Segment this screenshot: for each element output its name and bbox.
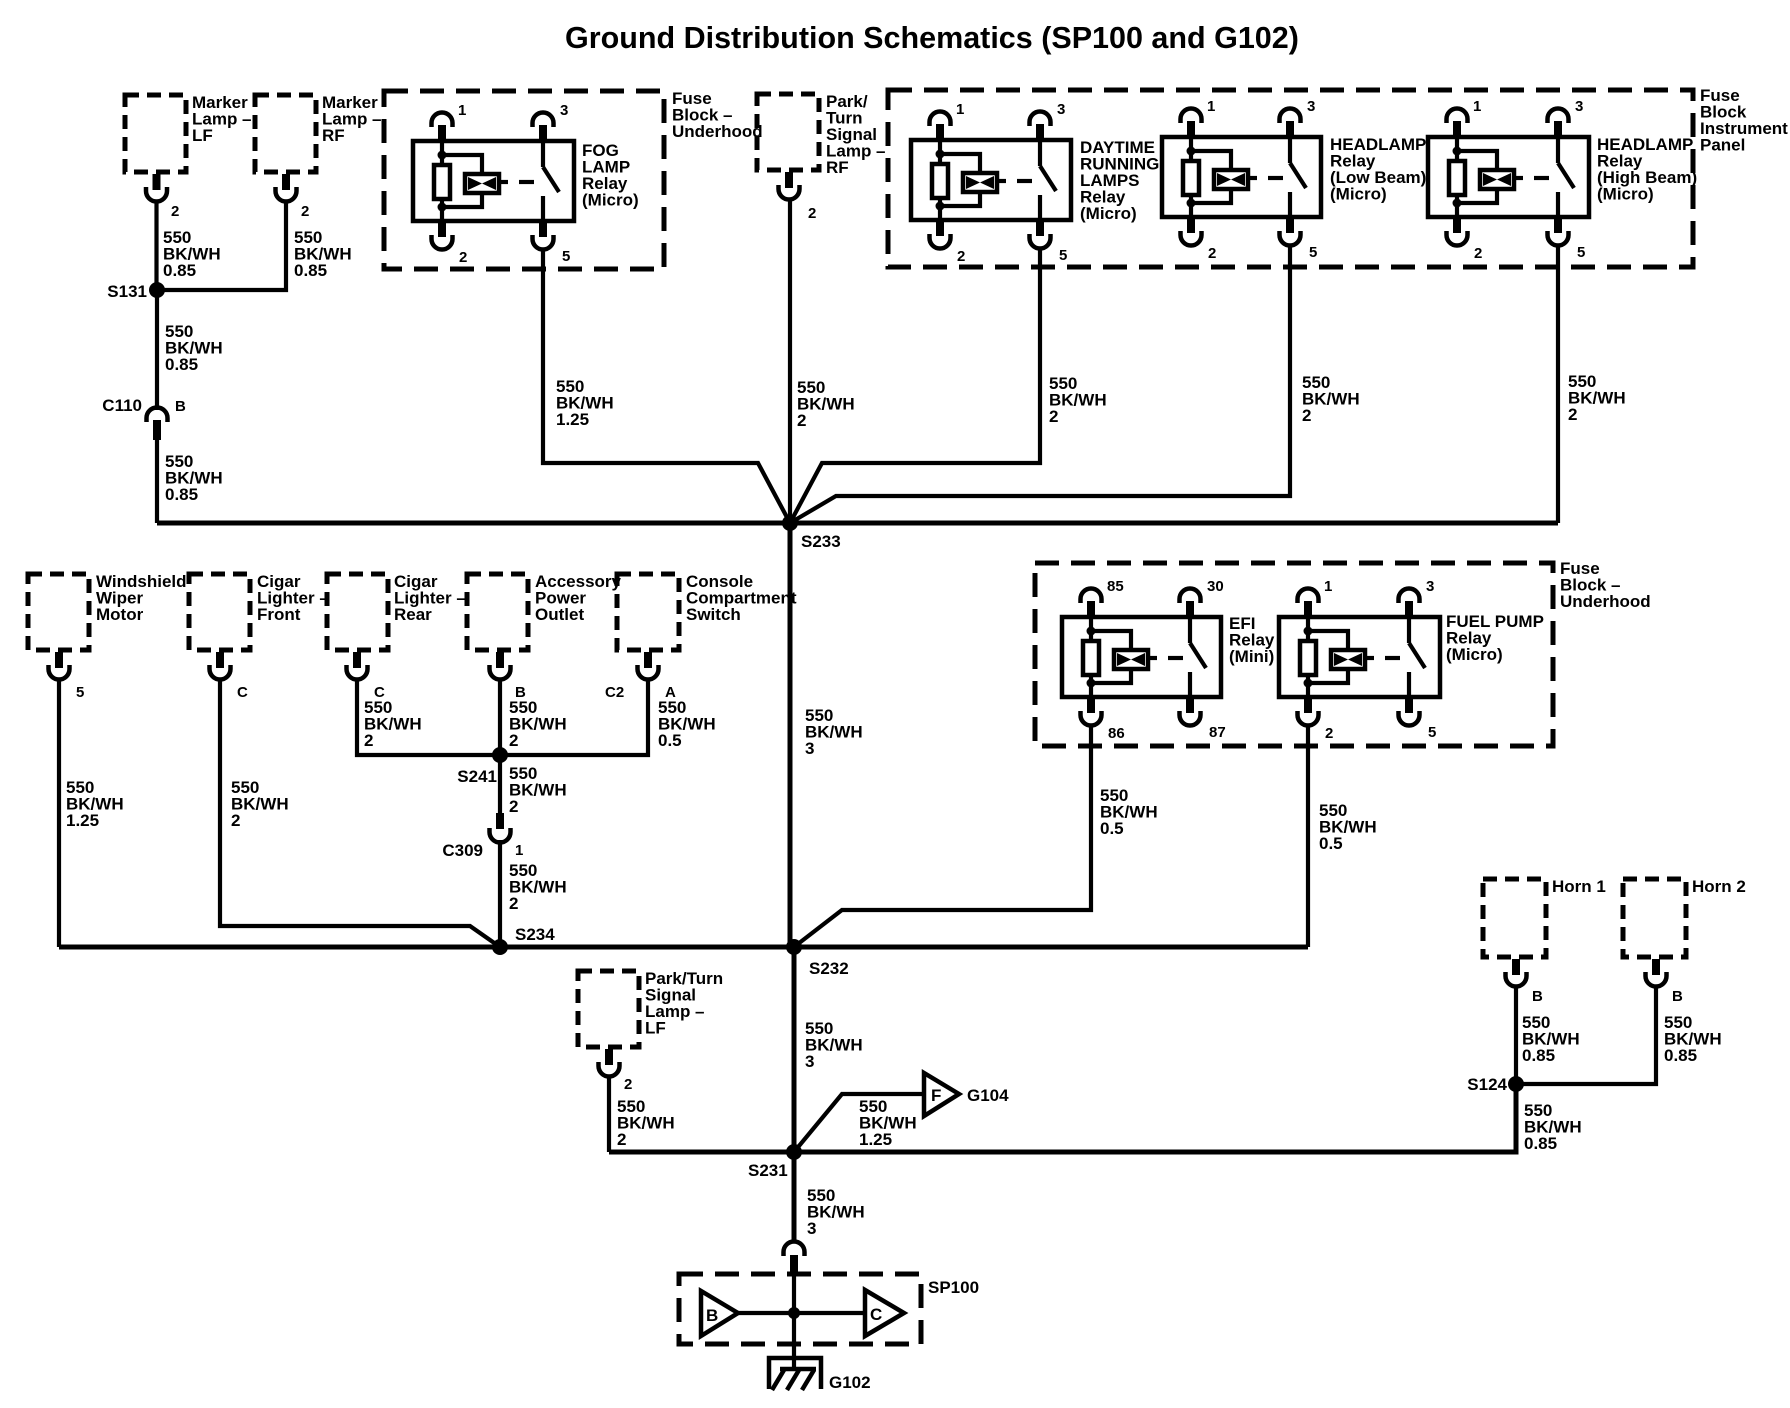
svg-text:RF: RF bbox=[322, 126, 345, 145]
svg-text:85: 85 bbox=[1107, 578, 1124, 595]
svg-text:C309: C309 bbox=[442, 841, 483, 860]
splice S233 bbox=[782, 515, 798, 531]
relay EFI: pin 30 connector bbox=[1180, 589, 1201, 604]
relay Fog Lamp: pin 2 connector bbox=[438, 221, 446, 237]
wire console switch to S241 bbox=[500, 679, 648, 755]
svg-text:Rear: Rear bbox=[394, 605, 432, 624]
svg-text:1: 1 bbox=[1473, 98, 1481, 115]
pin C (Cigar Lighter Front) bbox=[216, 652, 224, 668]
wire S231 to SP100 bbox=[792, 1152, 797, 1241]
svg-text:30: 30 bbox=[1207, 578, 1224, 595]
svg-text:RF: RF bbox=[826, 158, 849, 177]
relay Headlamp Low Beam: pin 5 connector bbox=[1286, 217, 1294, 233]
relay Fuel Pump: switch contact bbox=[1407, 617, 1411, 643]
svg-text:1: 1 bbox=[1324, 578, 1332, 595]
fuse block - underhood (EFI/fuel pump) dashed enclosure bbox=[1035, 563, 1553, 746]
relay Fuel Pump: pin 3 connector bbox=[1399, 589, 1420, 604]
svg-text:1: 1 bbox=[1207, 98, 1215, 115]
svg-text:Underhood: Underhood bbox=[1560, 592, 1651, 611]
component Cigar Lighter Front bbox=[189, 574, 250, 650]
relay Headlamp High Beam: resistor bbox=[1455, 137, 1459, 161]
ground G102 bbox=[769, 1358, 821, 1389]
relay EFI: pin 86 connector bbox=[1087, 697, 1095, 713]
svg-text:2: 2 bbox=[1302, 406, 1311, 425]
component Horn 1 bbox=[1483, 879, 1546, 957]
pin 2 (Marker Lamp LF) bbox=[153, 174, 161, 190]
SP100 node B triangle bbox=[701, 1291, 738, 1336]
relay Headlamp High Beam: coil-switch actuator dashes bbox=[1514, 176, 1523, 180]
svg-text:S231: S231 bbox=[748, 1161, 788, 1180]
splice pack SP100 dashed enclosure bbox=[679, 1274, 921, 1344]
svg-text:LF: LF bbox=[192, 126, 213, 145]
relay EFI: pin 87 connector bbox=[1186, 697, 1194, 713]
wire Marker Lamp RF pin2 to S131 bbox=[157, 201, 286, 290]
connector C110 pin B bbox=[147, 408, 168, 423]
svg-text:(Micro): (Micro) bbox=[582, 191, 639, 210]
svg-text:Motor: Motor bbox=[96, 605, 144, 624]
SP100 internal wire bbox=[792, 1276, 796, 1369]
relay EFI: coil-switch actuator dashes bbox=[1148, 656, 1157, 660]
component Park/Turn Signal Lamp RF bbox=[757, 94, 819, 170]
relay Fog Lamp: switch contact bbox=[541, 141, 545, 167]
svg-text:2: 2 bbox=[509, 731, 518, 750]
relay Daytime Running Lamps: junction dots bbox=[936, 150, 945, 159]
svg-text:Horn 2: Horn 2 bbox=[1692, 877, 1746, 896]
svg-text:2: 2 bbox=[171, 203, 179, 220]
relay Headlamp Low Beam: pin 3 connector bbox=[1280, 109, 1301, 123]
svg-text:2: 2 bbox=[459, 249, 467, 266]
svg-text:3: 3 bbox=[1307, 98, 1315, 115]
svg-text:2: 2 bbox=[1325, 725, 1333, 742]
wire low-beam relay pin5 to S233 bbox=[790, 246, 1290, 523]
svg-text:S241: S241 bbox=[457, 767, 497, 786]
relay Daytime Running Lamps: switch contact bbox=[1038, 140, 1042, 166]
relay Fog Lamp: resistor bbox=[440, 141, 444, 165]
svg-text:Panel: Panel bbox=[1700, 136, 1745, 155]
svg-text:0.5: 0.5 bbox=[658, 731, 682, 750]
svg-text:0.85: 0.85 bbox=[294, 261, 327, 280]
splice S231 bbox=[786, 1144, 802, 1160]
relay Headlamp High Beam: coil bbox=[1457, 151, 1497, 170]
wire S233 horizontal bus bbox=[157, 521, 1558, 526]
relay Fuel Pump: coil-switch actuator dashes bbox=[1365, 656, 1374, 660]
pin 2 (Marker Lamp RF) bbox=[282, 174, 290, 190]
svg-text:B: B bbox=[1532, 988, 1543, 1005]
component Horn 2 bbox=[1623, 879, 1686, 957]
component Accessory Power Outlet bbox=[467, 574, 528, 650]
relay Fog Lamp: coil-switch actuator dashes bbox=[499, 180, 508, 184]
svg-text:1.25: 1.25 bbox=[66, 811, 99, 830]
svg-text:2: 2 bbox=[1208, 245, 1216, 262]
svg-text:Front: Front bbox=[257, 605, 301, 624]
svg-text:2: 2 bbox=[624, 1076, 632, 1093]
svg-text:5: 5 bbox=[1059, 247, 1067, 264]
pin B (Accessory Power Outlet) bbox=[496, 652, 504, 668]
relay Headlamp High Beam: pin 1 connector bbox=[1447, 109, 1468, 123]
svg-text:5: 5 bbox=[1577, 244, 1585, 261]
wire fog relay pin5 to S233 bbox=[543, 250, 790, 523]
svg-text:1.25: 1.25 bbox=[859, 1130, 892, 1149]
wire S231 to G104 bbox=[794, 1094, 924, 1152]
svg-text:5: 5 bbox=[1309, 244, 1317, 261]
relay Daytime Running Lamps: coil-switch actuator dashes bbox=[997, 179, 1006, 183]
wire Marker Lamp LF pin2 to S131 bbox=[154, 201, 158, 290]
splice S241 bbox=[492, 747, 508, 763]
relay Headlamp Low Beam: junction dots bbox=[1187, 147, 1196, 156]
component Console Compartment Switch bbox=[617, 574, 679, 650]
svg-text:5: 5 bbox=[76, 684, 84, 701]
SP100 node C triangle bbox=[865, 1290, 904, 1336]
svg-text:3: 3 bbox=[1057, 101, 1065, 118]
pin 5 (Windshield Wiper Motor) bbox=[55, 652, 63, 668]
wire S232 to S231 bbox=[792, 947, 797, 1152]
relay Fog Lamp: junction dots bbox=[438, 151, 447, 160]
svg-text:2: 2 bbox=[797, 411, 806, 430]
relay EFI: junction dots bbox=[1087, 627, 1096, 636]
ground reference G104 bbox=[924, 1073, 959, 1116]
relay Fog Lamp: pin 1 connector bbox=[432, 113, 453, 128]
relay Fuel Pump: coil bbox=[1308, 631, 1348, 650]
wire S124 to S231 bbox=[794, 1084, 1516, 1152]
svg-text:3: 3 bbox=[805, 1052, 814, 1071]
svg-text:2: 2 bbox=[808, 205, 816, 222]
fuse block instrument panel dashed enclosure bbox=[888, 90, 1693, 267]
svg-text:S234: S234 bbox=[515, 925, 555, 944]
svg-text:1: 1 bbox=[956, 101, 964, 118]
relay Fog Lamp: coil bbox=[442, 155, 482, 174]
relay Headlamp Low Beam: case bbox=[1162, 137, 1321, 217]
wire EFI relay pin86 to S232 bbox=[794, 727, 1091, 947]
relay Daytime Running Lamps: pin 2 connector bbox=[936, 220, 944, 236]
svg-text:0.85: 0.85 bbox=[1524, 1134, 1557, 1153]
relay Headlamp High Beam: switch contact bbox=[1556, 137, 1560, 163]
svg-text:0.85: 0.85 bbox=[165, 485, 198, 504]
relay Headlamp Low Beam: pin 2 connector bbox=[1187, 217, 1195, 233]
svg-text:S232: S232 bbox=[809, 959, 849, 978]
component Marker Lamp LF bbox=[125, 95, 186, 172]
pin A connector C2 (Console Compartment Switch) bbox=[644, 652, 652, 668]
wire S131 to C110 bbox=[155, 290, 159, 410]
svg-text:0.85: 0.85 bbox=[1664, 1046, 1697, 1065]
relay Headlamp High Beam: case bbox=[1428, 137, 1589, 217]
relay EFI: switch contact bbox=[1188, 617, 1192, 643]
relay Fuel Pump: case bbox=[1279, 617, 1440, 697]
relay EFI: coil bbox=[1091, 631, 1131, 650]
svg-text:C110: C110 bbox=[102, 396, 142, 415]
svg-text:G104: G104 bbox=[967, 1086, 1009, 1105]
pin C (Cigar Lighter Rear) bbox=[353, 652, 361, 668]
relay Headlamp High Beam: pin 3 connector bbox=[1548, 109, 1569, 123]
svg-text:(Micro): (Micro) bbox=[1330, 185, 1387, 204]
splice S234 bbox=[492, 939, 508, 955]
wire high-beam relay pin5 to S233 bbox=[1556, 246, 1560, 523]
relay Fog Lamp: pin 5 connector bbox=[539, 221, 547, 237]
fuse block - underhood (fog lamp relay) dashed enclosure bbox=[384, 91, 664, 269]
svg-text:F: F bbox=[931, 1086, 941, 1105]
svg-text:B: B bbox=[1672, 988, 1683, 1005]
relay Headlamp Low Beam: coil bbox=[1191, 151, 1231, 170]
svg-text:3: 3 bbox=[1426, 578, 1434, 595]
svg-text:1: 1 bbox=[458, 102, 466, 119]
wire DRL relay pin5 to S233 bbox=[790, 249, 1040, 523]
svg-text:Underhood: Underhood bbox=[672, 122, 763, 141]
svg-text:SP100: SP100 bbox=[928, 1278, 979, 1297]
svg-text:Horn 1: Horn 1 bbox=[1552, 877, 1606, 896]
svg-text:0.5: 0.5 bbox=[1100, 819, 1124, 838]
svg-text:87: 87 bbox=[1209, 724, 1226, 741]
svg-text:(Micro): (Micro) bbox=[1080, 204, 1137, 223]
relay Headlamp High Beam: junction dots bbox=[1453, 147, 1462, 156]
relay Daytime Running Lamps: coil bbox=[940, 154, 980, 173]
relay EFI: resistor bbox=[1089, 617, 1093, 641]
component Cigar Lighter Rear bbox=[327, 574, 388, 650]
svg-text:2: 2 bbox=[1049, 407, 1058, 426]
relay Headlamp High Beam: pin 5 connector bbox=[1554, 217, 1562, 233]
svg-text:0.85: 0.85 bbox=[163, 261, 196, 280]
wire C110 to S233 bus bbox=[155, 440, 159, 523]
svg-text:C: C bbox=[870, 1305, 882, 1324]
svg-text:2: 2 bbox=[1474, 245, 1482, 262]
svg-text:2: 2 bbox=[364, 731, 373, 750]
svg-text:3: 3 bbox=[807, 1219, 816, 1238]
pin B (Horn 2) bbox=[1652, 959, 1660, 975]
relay Headlamp Low Beam: switch contact bbox=[1288, 137, 1292, 163]
pin 2 (Park/Turn LF) bbox=[605, 1049, 613, 1065]
svg-text:2: 2 bbox=[957, 248, 965, 265]
svg-text:5: 5 bbox=[562, 248, 570, 265]
relay Daytime Running Lamps: pin 3 connector bbox=[1030, 112, 1051, 126]
relay Daytime Running Lamps: resistor bbox=[938, 140, 942, 164]
svg-text:86: 86 bbox=[1108, 725, 1125, 742]
relay EFI: case bbox=[1062, 617, 1221, 697]
relay Headlamp Low Beam: resistor bbox=[1189, 137, 1193, 161]
svg-text:G102: G102 bbox=[829, 1373, 871, 1392]
relay Headlamp Low Beam: pin 1 connector bbox=[1181, 109, 1202, 123]
svg-text:2: 2 bbox=[301, 203, 309, 220]
connector C309 pin 1 bbox=[496, 813, 504, 829]
SP100 junction bbox=[788, 1307, 800, 1319]
relay Fog Lamp: pin 3 connector bbox=[533, 113, 554, 128]
svg-text:(Mini): (Mini) bbox=[1229, 647, 1274, 666]
svg-text:0.85: 0.85 bbox=[1522, 1046, 1555, 1065]
wire C309 to S234 bbox=[498, 840, 502, 947]
svg-text:2: 2 bbox=[617, 1130, 626, 1149]
wire accessory outlet to S241/C309 bbox=[498, 679, 502, 813]
svg-text:0.5: 0.5 bbox=[1319, 834, 1343, 853]
pin 2 (Park/Turn RF) bbox=[785, 172, 793, 188]
svg-text:2: 2 bbox=[231, 811, 240, 830]
svg-text:3: 3 bbox=[560, 102, 568, 119]
wire Park/Turn RF to S233 bbox=[788, 199, 792, 523]
relay Fog Lamp: case bbox=[413, 141, 574, 221]
wire Park/Turn LF to S231 bbox=[607, 1076, 611, 1152]
relay Fuel Pump: pin 2 connector bbox=[1304, 697, 1312, 713]
svg-text:Outlet: Outlet bbox=[535, 605, 584, 624]
relay Fuel Pump: pin 5 connector bbox=[1405, 697, 1413, 713]
svg-text:0.85: 0.85 bbox=[165, 355, 198, 374]
pin B (Horn 1) bbox=[1512, 959, 1520, 975]
component Windshield Wiper Motor bbox=[28, 574, 89, 650]
splice S232 bbox=[786, 939, 802, 955]
wire S234-S232 horizontal bus bbox=[59, 945, 1308, 950]
svg-text:1: 1 bbox=[515, 842, 523, 859]
wire Horn 1 to S124 bbox=[1514, 986, 1518, 1084]
svg-text:Switch: Switch bbox=[686, 605, 741, 624]
wire S233 to S232 bbox=[788, 523, 793, 947]
wire Horn 2 to S124 bbox=[1516, 986, 1656, 1084]
relay EFI: pin 85 connector bbox=[1081, 589, 1102, 604]
relay Daytime Running Lamps: pin 5 connector bbox=[1036, 220, 1044, 236]
splice S124 bbox=[1508, 1076, 1524, 1092]
wire fuel pump relay pin2 to S234 bus bbox=[1306, 727, 1310, 947]
svg-text:C2: C2 bbox=[605, 684, 624, 701]
wire cigar rear to S241 bbox=[357, 679, 500, 755]
svg-text:Ground Distribution Schematics: Ground Distribution Schematics (SP100 an… bbox=[565, 21, 1299, 55]
svg-text:(Micro): (Micro) bbox=[1446, 645, 1503, 664]
svg-text:B: B bbox=[175, 398, 186, 415]
relay Daytime Running Lamps: case bbox=[911, 140, 1071, 220]
relay Daytime Running Lamps: pin 1 connector bbox=[930, 112, 951, 126]
relay Fuel Pump: resistor bbox=[1306, 617, 1310, 641]
connector at SP100 bbox=[784, 1242, 805, 1257]
svg-text:S124: S124 bbox=[1467, 1075, 1507, 1094]
component Park/Turn Signal Lamp LF bbox=[578, 971, 639, 1047]
svg-text:LF: LF bbox=[645, 1019, 666, 1038]
svg-text:S131: S131 bbox=[107, 282, 147, 301]
wire wiper motor to S234 bbox=[57, 679, 61, 947]
relay Headlamp Low Beam: coil-switch actuator dashes bbox=[1248, 176, 1257, 180]
svg-text:5: 5 bbox=[1428, 724, 1436, 741]
svg-text:3: 3 bbox=[805, 739, 814, 758]
svg-text:2: 2 bbox=[509, 894, 518, 913]
svg-text:(Micro): (Micro) bbox=[1597, 185, 1654, 204]
relay Headlamp High Beam: pin 2 connector bbox=[1453, 217, 1461, 233]
svg-text:S233: S233 bbox=[801, 532, 841, 551]
relay Fuel Pump: junction dots bbox=[1304, 627, 1313, 636]
splice S131 bbox=[149, 282, 165, 298]
svg-text:C: C bbox=[237, 684, 248, 701]
svg-text:2: 2 bbox=[1568, 405, 1577, 424]
component Marker Lamp RF bbox=[255, 95, 316, 172]
svg-text:B: B bbox=[706, 1306, 718, 1325]
svg-text:2: 2 bbox=[509, 797, 518, 816]
relay Fuel Pump: pin 1 connector bbox=[1298, 589, 1319, 604]
svg-text:1.25: 1.25 bbox=[556, 410, 589, 429]
wire cigar front to S234 bbox=[220, 679, 500, 947]
svg-text:3: 3 bbox=[1575, 98, 1583, 115]
